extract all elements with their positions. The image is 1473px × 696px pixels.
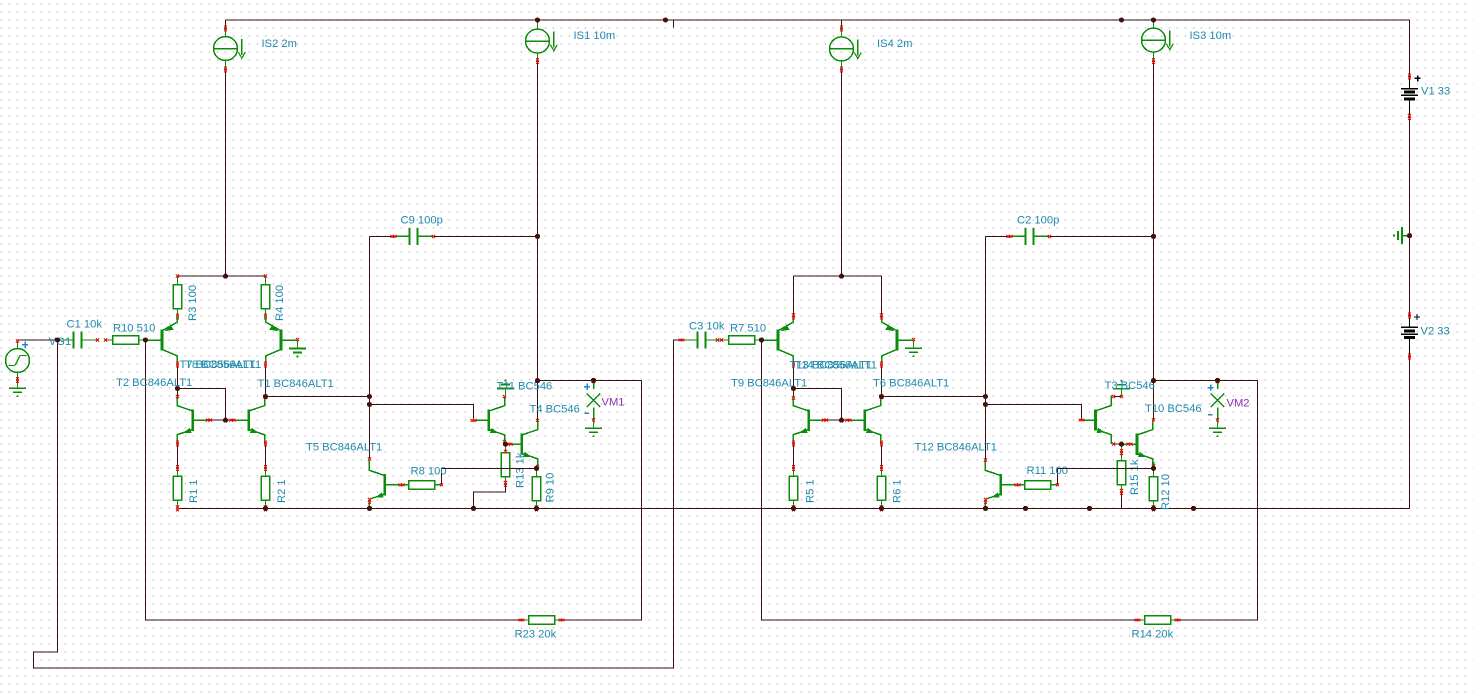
wire T8 collector to T1 collector [265, 365, 267, 397]
transistor T5 BC846ALT1 (NPN) [369, 460, 402, 508]
wire IS3 drop to C2 node, VM2 node and T10 collector [1153, 61, 1155, 420]
junction C2 riser lower [983, 402, 988, 407]
T8 pin marks [264, 362, 267, 365]
transistor T13 BC856ALT1 (PNP) [762, 316, 794, 364]
IS4 pin marks [840, 26, 843, 29]
junction T13/T14 tie [839, 274, 844, 279]
C2 pin marks [1007, 235, 1010, 238]
svg-text:R13 1k: R13 1k [515, 452, 527, 488]
wire T1 base to common node [226, 419, 233, 421]
svg-text:IS3 10m: IS3 10m [1190, 30, 1232, 42]
junction rail at R6 [879, 506, 884, 511]
ground at T14 base [913, 340, 915, 348]
resistor R8 100 [402, 484, 409, 486]
T11 emitter into node [504, 438, 506, 444]
junction rail at T12 emitter [983, 506, 988, 511]
wire C2 top run [986, 235, 1010, 237]
R11 pin marks [1015, 483, 1018, 486]
transistor T14 BC856ALT1 (PNP) [882, 316, 914, 364]
T1 pin marks [264, 396, 267, 399]
junction T4 base node [503, 442, 508, 447]
VM2 pin marks [1216, 380, 1219, 383]
wire T6 base to common node [842, 419, 849, 421]
wire input node VG1 to C1 [18, 339, 58, 341]
R8 pin marks [399, 483, 402, 486]
svg-text:R9 10: R9 10 [545, 473, 557, 503]
junction top rail at IS3 [1151, 17, 1156, 22]
svg-text:T10 BC546: T10 BC546 [1145, 403, 1202, 415]
wire R8 run crossing over R13 body [442, 467, 537, 469]
R9 pin marks [535, 467, 538, 470]
T12 pin marks [984, 459, 987, 462]
battery V2 33 [1409, 316, 1411, 328]
wire bottom ground rail [178, 507, 1410, 509]
wire T13 collector to T9 collector [793, 365, 795, 399]
junction rail at R12 [1151, 506, 1156, 511]
resistor R10 510 [106, 339, 113, 341]
wire V1 to supply midpoint node [1409, 99, 1411, 327]
junction R3/R4 tie [223, 274, 228, 279]
junction top rail segment break 2 [1119, 17, 1124, 22]
svg-text:T12 BC846ALT1: T12 BC846ALT1 [915, 442, 998, 454]
junction input node at R10 [143, 337, 148, 342]
current source IS3 10m [1153, 20, 1155, 28]
svg-text:T14 BC856ALT1: T14 BC856ALT1 [795, 360, 878, 372]
junction T6 collector node [879, 394, 884, 399]
T4 pin marks [536, 419, 539, 422]
svg-text:T5 BC846ALT1: T5 BC846ALT1 [306, 442, 382, 454]
wire T6 emitter to R6 [881, 444, 883, 469]
capacitor C3 10k [682, 339, 698, 341]
wire T1 collector node to C9 riser [266, 396, 370, 398]
svg-text:R2 1: R2 1 [276, 479, 288, 503]
wire top supply rail [226, 19, 1410, 21]
wire T3 emitter to T10 base node [1114, 443, 1122, 445]
inverted ground at T11 collector [505, 389, 507, 397]
wire V2 to bottom ground rail corner [1409, 338, 1411, 508]
svg-text:T6 BC846ALT1: T6 BC846ALT1 [873, 378, 949, 390]
svg-text:VM2: VM2 [1227, 398, 1250, 410]
wire C9 right to IS1 column [434, 235, 538, 237]
T5 pin marks [368, 458, 371, 461]
VG1 pin marks [16, 339, 19, 342]
T6 pin marks [880, 396, 883, 399]
svg-text:R3 100: R3 100 [187, 285, 199, 321]
T14 pin marks [880, 313, 883, 316]
junction T13 collector node [791, 386, 796, 391]
wire R23 to output riser [562, 381, 642, 620]
wire T3 collector link to ground stub [1114, 395, 1122, 397]
junction rail segment break B [1087, 506, 1092, 511]
transistor T4 BC546 (NPN) [506, 420, 538, 468]
wire node to T3 base [986, 405, 1082, 421]
wire R11 run crossing over R15 body [1058, 467, 1154, 469]
svg-text:VG1: VG1 [49, 336, 71, 348]
V1 plus sign [1415, 76, 1421, 82]
junction C2 riser upper [983, 394, 988, 399]
wire T5 emitter to rail [369, 501, 371, 509]
junction R9 top node [534, 466, 539, 471]
VM1 polarity plus [584, 384, 590, 390]
svg-text:IS4 2m: IS4 2m [877, 38, 912, 50]
transistor T3 BC546 (NPN) [1082, 396, 1112, 444]
transistor T9 BC846ALT1 (NPN) [793, 396, 825, 444]
wire C9 top run [370, 235, 394, 237]
wire right edge: rail corner down to V1 [1409, 20, 1411, 89]
wire T2 emitter to R1 [177, 444, 179, 469]
junction T10 base node [1119, 442, 1124, 447]
junction rail segment break A [1023, 506, 1028, 511]
svg-text:R7 510: R7 510 [730, 323, 766, 335]
wire input node down to R23 [146, 340, 522, 620]
R3 pin marks [176, 275, 179, 278]
current source IS1 10m [537, 20, 539, 29]
C9 pin marks [391, 235, 394, 238]
resistor R7 510 [722, 339, 729, 341]
inverted ground at T3 collector [1121, 389, 1123, 397]
svg-text:T11 BC546: T11 BC546 [497, 381, 553, 393]
wire C2 right to IS3 column [1050, 235, 1154, 237]
capacitor C2 100p [1010, 235, 1026, 237]
R5 pin marks [792, 465, 795, 468]
R10 pin marks [104, 338, 107, 341]
ground at VG1 [17, 380, 19, 388]
R6 pin marks [880, 465, 883, 468]
svg-text:VM1: VM1 [602, 397, 625, 409]
wire R7 node down to R14 [762, 340, 1138, 620]
svg-text:T3 BC546: T3 BC546 [1105, 380, 1155, 392]
ground at VM2 [1217, 423, 1219, 428]
T10 emitter into node [1153, 462, 1155, 468]
svg-text:T2 BC846ALT1: T2 BC846ALT1 [116, 377, 192, 389]
svg-text:T1 BC846ALT1: T1 BC846ALT1 [258, 378, 334, 390]
T2 pin marks [176, 395, 179, 398]
battery V1 33 [1409, 77, 1411, 89]
resistor R11 100 [1018, 484, 1025, 486]
junction T1 collector node [263, 394, 268, 399]
T3 pin marks [1079, 419, 1082, 422]
wire T1 emitter to R2 [265, 444, 267, 469]
wire T12 emitter to rail [985, 501, 987, 509]
VM2 polarity plus [1207, 384, 1213, 390]
ground at VM1 [593, 423, 595, 428]
wire IS4 drop to right mirror node [841, 70, 843, 277]
current source IS2 2m [225, 29, 227, 37]
junction rail at T5 emitter [367, 506, 372, 511]
svg-text:R11 100: R11 100 [1027, 465, 1068, 477]
wire node to T11 base [370, 405, 474, 421]
transistor T8 BC856ALT1 (PNP) [266, 316, 298, 364]
resistor R5 1 [793, 468, 795, 476]
junction VG1 node [55, 337, 60, 342]
wire T13 emitter feed [793, 276, 795, 316]
C3 pin marks [679, 339, 682, 342]
wire R14 to right output riser [1178, 381, 1258, 620]
transistor T6 BC846ALT1 (NPN) [849, 396, 881, 444]
resistor R4 100 [265, 276, 267, 284]
R2 pin marks [264, 465, 267, 468]
wire T14 emitter feed [881, 276, 883, 316]
wire R13 bottom jog to rail [474, 484, 506, 509]
wire IS2 output down to mirror node [225, 70, 227, 277]
T10 pin marks [1152, 418, 1155, 421]
R1 pin marks [176, 465, 179, 468]
capacitor C9 100p [394, 235, 410, 237]
junction rail segment break C [1191, 506, 1196, 511]
svg-text:R4 100: R4 100 [274, 285, 286, 321]
junction C9 riser upper [367, 394, 372, 399]
svg-text:T4 BC546: T4 BC546 [530, 404, 580, 416]
transistor T10 BC546 (NPN) [1122, 420, 1153, 468]
voltmeter VM1 [593, 380, 595, 389]
wire R8 to T4 emitter node [442, 468, 537, 484]
R13 pin marks [504, 450, 507, 453]
wire T6 collector node to C2 riser [882, 396, 986, 398]
ground at supply midpoint [1402, 235, 1410, 237]
resistor R6 1 [881, 468, 883, 476]
R7 pin marks [720, 338, 723, 341]
transistor T1 BC846ALT1 (NPN) [233, 396, 265, 444]
junction supply midpoint [1407, 233, 1412, 238]
transistor T7 BC856ALT1 (PNP) [146, 316, 178, 364]
IS2 pin marks [224, 26, 227, 29]
resistor R15 1k [1121, 452, 1123, 460]
junction VM1 tap [591, 378, 596, 383]
R14 pin marks [1135, 619, 1138, 622]
resistor R2 1 [265, 468, 267, 476]
junction T7 collector node [175, 386, 180, 391]
wire VM2 output branch [1154, 380, 1258, 382]
junction top rail at IS1 [535, 17, 540, 22]
VM1 polarity minus [584, 412, 589, 414]
svg-text:C9 100p: C9 100p [401, 215, 443, 227]
svg-text:R23 20k: R23 20k [515, 629, 557, 641]
junction rail at R5 [791, 506, 796, 511]
IS3 pin marks [1152, 19, 1155, 22]
junction C9 riser lower [367, 402, 372, 407]
wire R11 to T10 emitter node [1058, 468, 1154, 484]
resistor R9 10 [536, 468, 538, 476]
voltage generator VG1 [17, 340, 19, 349]
transistor T11 BC546 (NPN) [474, 396, 505, 444]
wire T7 collector to T2 collector [177, 365, 179, 396]
junction rail at R2 [263, 506, 268, 511]
junction output node left [535, 378, 540, 383]
wire T2 base to common node [209, 419, 226, 421]
svg-text:C2 100p: C2 100p [1017, 215, 1059, 227]
R12 pin marks [1152, 467, 1155, 470]
wire R15 bottom to rail [1121, 492, 1123, 509]
capacitor C1 10k [58, 339, 74, 341]
C1 pin marks [96, 338, 99, 341]
T3 emitter into node [1110, 438, 1112, 444]
svg-text:T8 BC856ALT1: T8 BC856ALT1 [185, 359, 261, 371]
wire C9 riser / T5 collector column [369, 236, 371, 459]
resistor R14 20k [1138, 619, 1145, 621]
wire VG1 node down, jog and long run to right-half input [34, 340, 682, 668]
svg-text:IS1 10m: IS1 10m [574, 30, 616, 42]
svg-text:C3 10k: C3 10k [689, 321, 725, 333]
wire T14 collector to T6 collector [881, 365, 883, 397]
VM1 pin marks [592, 380, 595, 383]
T7 pin marks [176, 362, 179, 365]
svg-text:R1 1: R1 1 [188, 479, 200, 503]
VM2 polarity minus [1208, 414, 1213, 416]
svg-text:R6 1: R6 1 [892, 479, 904, 503]
svg-text:IS2 2m: IS2 2m [262, 38, 297, 50]
voltmeter VM2 [1217, 380, 1219, 389]
junction R12 top node [1151, 466, 1156, 471]
svg-text:R12 10: R12 10 [1160, 474, 1172, 510]
wire T9 emitter to R5 [793, 444, 795, 469]
resistor R1 1 [177, 468, 179, 476]
wire IS1 drop to C9 node, VM1 node and T4 collector [537, 61, 539, 420]
transistor T12 BC846ALT1 (NPN) [985, 460, 1018, 508]
wire T13/T14 emitter tie bar [794, 275, 882, 277]
svg-text:R15 1k: R15 1k [1129, 459, 1141, 495]
junction diff pair bases left [223, 418, 228, 423]
junction C2 at IS3 column [1151, 234, 1156, 239]
wire C2 riser / T12 collector column [985, 236, 987, 460]
T13 pin marks [792, 313, 795, 316]
junction top rail segment break [663, 17, 668, 22]
junction C9 at IS1 column [535, 234, 540, 239]
junction rail at R9 [534, 506, 539, 511]
junction rail at R13 jog [471, 506, 476, 511]
svg-text:V2 33: V2 33 [1421, 326, 1450, 338]
svg-text:C1 10k: C1 10k [67, 319, 103, 331]
svg-text:R8 100: R8 100 [411, 466, 447, 478]
T11 pin marks [471, 419, 474, 422]
wire T13 collector node to right diff pair base node [794, 389, 842, 421]
svg-text:R14 20k: R14 20k [1132, 629, 1174, 641]
V1 pin marks [1408, 74, 1411, 77]
junction diff pair bases right [839, 418, 844, 423]
resistor R3 100 [177, 276, 179, 284]
R4 pin marks [264, 275, 267, 278]
junction right input node at R7 [759, 337, 764, 342]
current source IS4 2m [841, 20, 843, 29]
resistor R13 1k [505, 444, 507, 452]
wire stub dangling below top rail [673, 20, 675, 28]
R15 pin marks [1121, 444, 1123, 452]
svg-text:R5 1: R5 1 [805, 479, 817, 503]
wire T7 collector node to diff pair base node [178, 389, 226, 421]
resistor R23 20k [522, 619, 529, 621]
V2 plus sign [1414, 314, 1420, 320]
wire R3/R4 top tie bar [178, 275, 266, 277]
V2 pin marks [1408, 313, 1411, 316]
ground at T8 base [297, 340, 299, 349]
IS1 pin marks [536, 19, 539, 22]
junction VM2 tap [1215, 378, 1220, 383]
T9 pin marks [792, 397, 795, 400]
resistor R12 10 [1153, 468, 1155, 476]
R23 pin marks [519, 619, 522, 622]
VG1 polarity plus [22, 342, 28, 348]
svg-text:V1 33: V1 33 [1421, 86, 1450, 98]
wire T9 base to common node [825, 419, 842, 421]
T4 emitter into node [537, 462, 539, 468]
junction output node right [1151, 378, 1156, 383]
wire VM1 output branch [538, 380, 642, 382]
svg-text:R10 510: R10 510 [113, 323, 155, 335]
wire IS2 top connection to rail [225, 20, 227, 29]
transistor T2 BC846ALT1 (NPN) [177, 396, 209, 444]
